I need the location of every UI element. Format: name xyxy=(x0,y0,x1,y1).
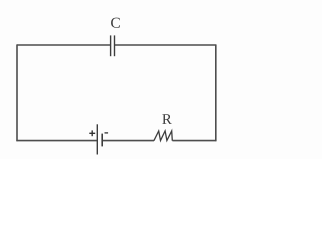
capacitor C xyxy=(111,35,115,56)
label C xyxy=(111,18,120,28)
wire bottom-left segment xyxy=(16,140,97,142)
battery B1 positive plate xyxy=(96,124,98,154)
wire left side xyxy=(16,44,18,141)
wire top-right segment xyxy=(115,44,216,46)
wire right side xyxy=(215,44,217,141)
battery polarity label + xyxy=(89,130,95,136)
resistor R xyxy=(154,131,172,141)
wire bottom-middle segment xyxy=(103,140,154,142)
wire bottom-right segment xyxy=(172,140,216,142)
wire top-left segment xyxy=(17,44,111,46)
battery polarity label - xyxy=(105,132,109,134)
battery B1 negative plate xyxy=(101,134,103,147)
label R xyxy=(162,114,171,124)
